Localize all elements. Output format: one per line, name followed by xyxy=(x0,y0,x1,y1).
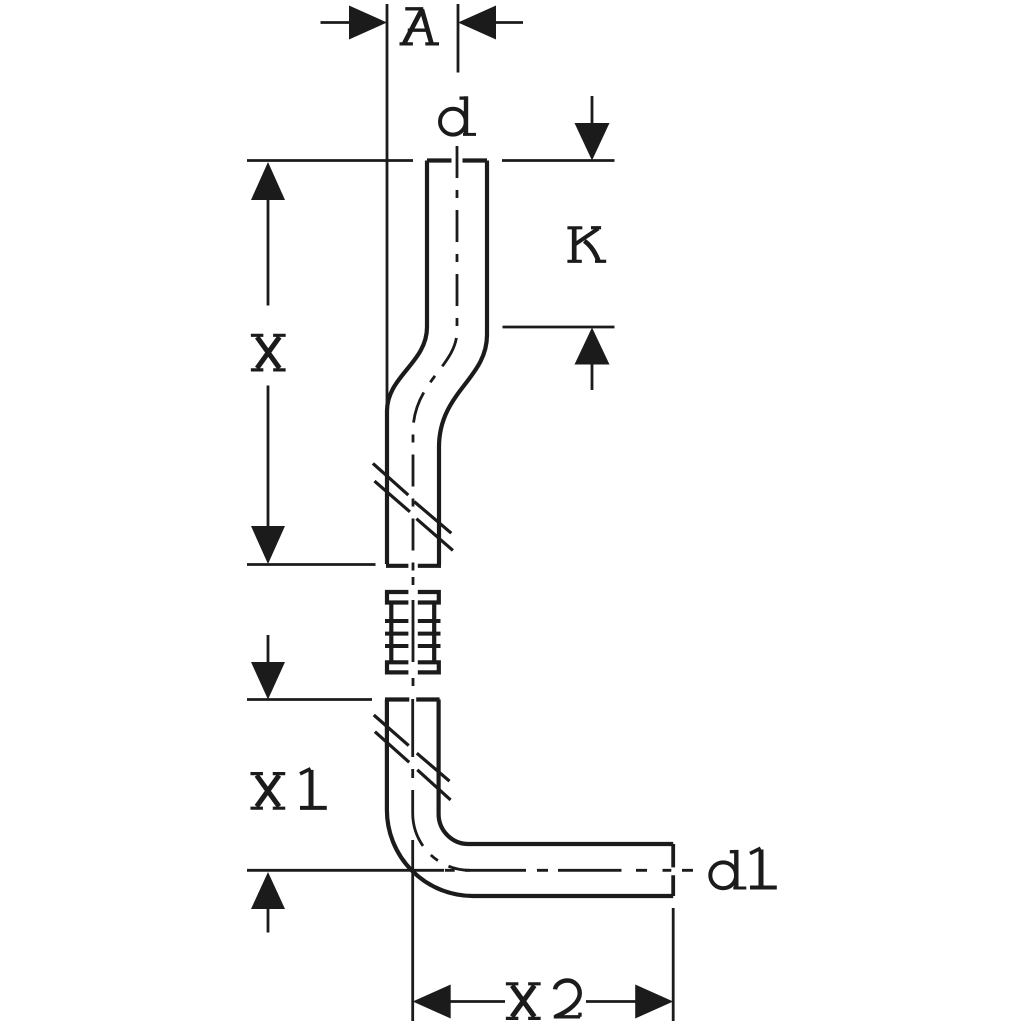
label A xyxy=(400,9,440,44)
dimension X2: left extension line xyxy=(411,840,414,1021)
centerline through connector xyxy=(412,577,415,690)
connector sleeve bottom band xyxy=(387,662,439,672)
dimension X: bottom extension line xyxy=(247,563,376,566)
horizontal centerline dashes xyxy=(445,869,693,872)
dimension X2: left tail xyxy=(448,1000,505,1003)
upper pipe left wall xyxy=(387,161,427,565)
dimension X: bottom arrowhead xyxy=(251,526,285,564)
connector sleeve top band xyxy=(387,592,439,603)
centerline upper pipe xyxy=(413,146,457,572)
label d1 xyxy=(710,850,746,889)
dimension X: top arrowhead xyxy=(251,162,285,200)
dimension X1: bottom arrow tail xyxy=(267,906,270,933)
dimension X: line upper segment xyxy=(267,198,270,306)
dimension A: left arrowhead xyxy=(349,6,387,40)
dimension A: right arrow tail xyxy=(494,21,523,24)
dimension K: bottom arrowhead xyxy=(575,328,610,365)
dimension A: left arrow tail xyxy=(321,21,353,24)
upper pipe right wall xyxy=(439,161,487,565)
pipe end cap xyxy=(671,844,675,896)
label X2 xyxy=(506,984,541,1019)
label X xyxy=(251,335,286,370)
dimension K: top arrow tail xyxy=(591,96,594,126)
dimension K: bottom arrow tail xyxy=(591,361,594,390)
centerline lower pipe with elbow arc xyxy=(413,699,470,870)
dimension K: bottom extension line xyxy=(503,326,615,329)
dimension X2: right tail xyxy=(586,1000,638,1003)
label X1 xyxy=(250,774,285,809)
dimension X1: top arrowhead xyxy=(251,662,285,700)
dimension X1: bottom arrowhead xyxy=(251,872,285,909)
dimension A: left extension line xyxy=(386,4,389,407)
dimension A: right arrowhead xyxy=(458,6,496,40)
dimension X2: right arrowhead xyxy=(635,985,673,1019)
dimension K: top arrowhead xyxy=(575,123,610,161)
connector sleeve ribs xyxy=(385,621,441,646)
label d xyxy=(440,96,476,135)
upper pipe bottom end edge xyxy=(386,564,441,568)
lower pipe top edge xyxy=(385,697,440,701)
dimension X2: right extension line xyxy=(672,908,675,1021)
dimension X1: top arrow tail xyxy=(267,635,270,665)
connector sleeve body walls xyxy=(391,603,434,661)
dimension X1: top extension line xyxy=(247,698,372,701)
dimension X2: left arrowhead xyxy=(413,985,451,1019)
break symbol lower pipe xyxy=(374,715,451,800)
break symbol upper pipe xyxy=(373,463,453,550)
dimension X: line lower segment xyxy=(267,386,270,529)
label K xyxy=(567,228,606,262)
lower pipe left wall and outer elbow xyxy=(387,700,673,897)
lower pipe right wall and inner elbow xyxy=(439,700,674,845)
dimension A: right extension line xyxy=(457,4,460,73)
upper pipe mouth top edge xyxy=(427,158,487,162)
extension line at pipe mouth right xyxy=(502,159,615,162)
horizontal centerline / X1 extension line xyxy=(247,869,444,872)
extension line at pipe mouth left xyxy=(247,159,413,162)
